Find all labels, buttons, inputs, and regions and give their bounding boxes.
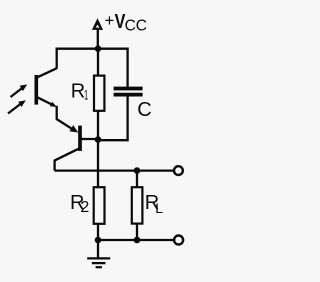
node A junction dot — [95, 136, 102, 143]
C bottom lead — [98, 96, 128, 140]
ground — [87, 240, 110, 267]
svg-text:CC: CC — [125, 17, 147, 34]
capacitor C — [98, 48, 143, 141]
R1 body — [94, 76, 104, 111]
R2 body — [94, 187, 105, 224]
wire Q2 collector vertical — [53, 160, 55, 171]
svg-text:1: 1 — [84, 86, 88, 102]
terminal output top — [174, 166, 183, 175]
R2 bottom lead — [97, 224, 99, 240]
R2 top lead — [97, 141, 99, 187]
terminal output bottom — [174, 236, 183, 245]
wire Q1 emitter vertical — [56, 106, 58, 120]
node junction RL bottom — [134, 237, 141, 244]
light arrow 2 — [8, 100, 26, 113]
label +VCC — [105, 11, 147, 34]
wire VCC riser — [97, 30, 99, 50]
node junction top (VCC tap) — [95, 45, 102, 52]
Q2 collector lead — [54, 149, 78, 161]
resistor R1 — [94, 50, 104, 141]
light arrow 1 — [11, 84, 28, 97]
svg-text:2: 2 — [80, 199, 89, 216]
node junction ground tap — [95, 237, 102, 244]
Q1 base bar — [34, 75, 38, 105]
Q1 emitter lead — [37, 97, 52, 105]
wire left drop to Q1 collector — [56, 48, 58, 69]
label R1 — [71, 81, 89, 103]
Q2 base bar — [78, 126, 82, 151]
Q1 emitter arrowhead — [50, 102, 57, 107]
label RL — [145, 192, 163, 216]
RL bottom lead — [136, 224, 138, 240]
phototransistor Q1 — [36, 68, 57, 107]
wire output rail (collector to terminal) — [55, 169, 175, 171]
label R2 — [70, 192, 89, 216]
Q2 base lead — [82, 138, 99, 140]
svg-text:+: + — [105, 12, 115, 30]
RL top lead — [136, 171, 138, 188]
supply arrow +VCC — [92, 18, 103, 30]
resistor RL — [132, 171, 143, 240]
C plate top — [114, 87, 143, 91]
wire bottom rail — [98, 239, 174, 241]
Q1 collector lead — [37, 68, 57, 77]
Q2 emitter arrowhead (PNP) — [70, 125, 79, 133]
R1 top lead — [97, 50, 99, 76]
C top lead — [126, 48, 128, 87]
resistor R2 — [94, 141, 105, 240]
transistor Q2 (PNP) — [54, 126, 98, 161]
svg-text:C: C — [137, 99, 151, 121]
R1 bottom lead — [97, 111, 99, 141]
C plate bottom — [114, 93, 143, 97]
wire top rail — [56, 48, 129, 50]
wire diagonal to Q2 emitter — [56, 119, 72, 129]
svg-text:L: L — [155, 200, 163, 216]
node junction RL top — [134, 167, 141, 174]
RL body — [132, 187, 143, 223]
svg-text:R: R — [71, 81, 85, 103]
